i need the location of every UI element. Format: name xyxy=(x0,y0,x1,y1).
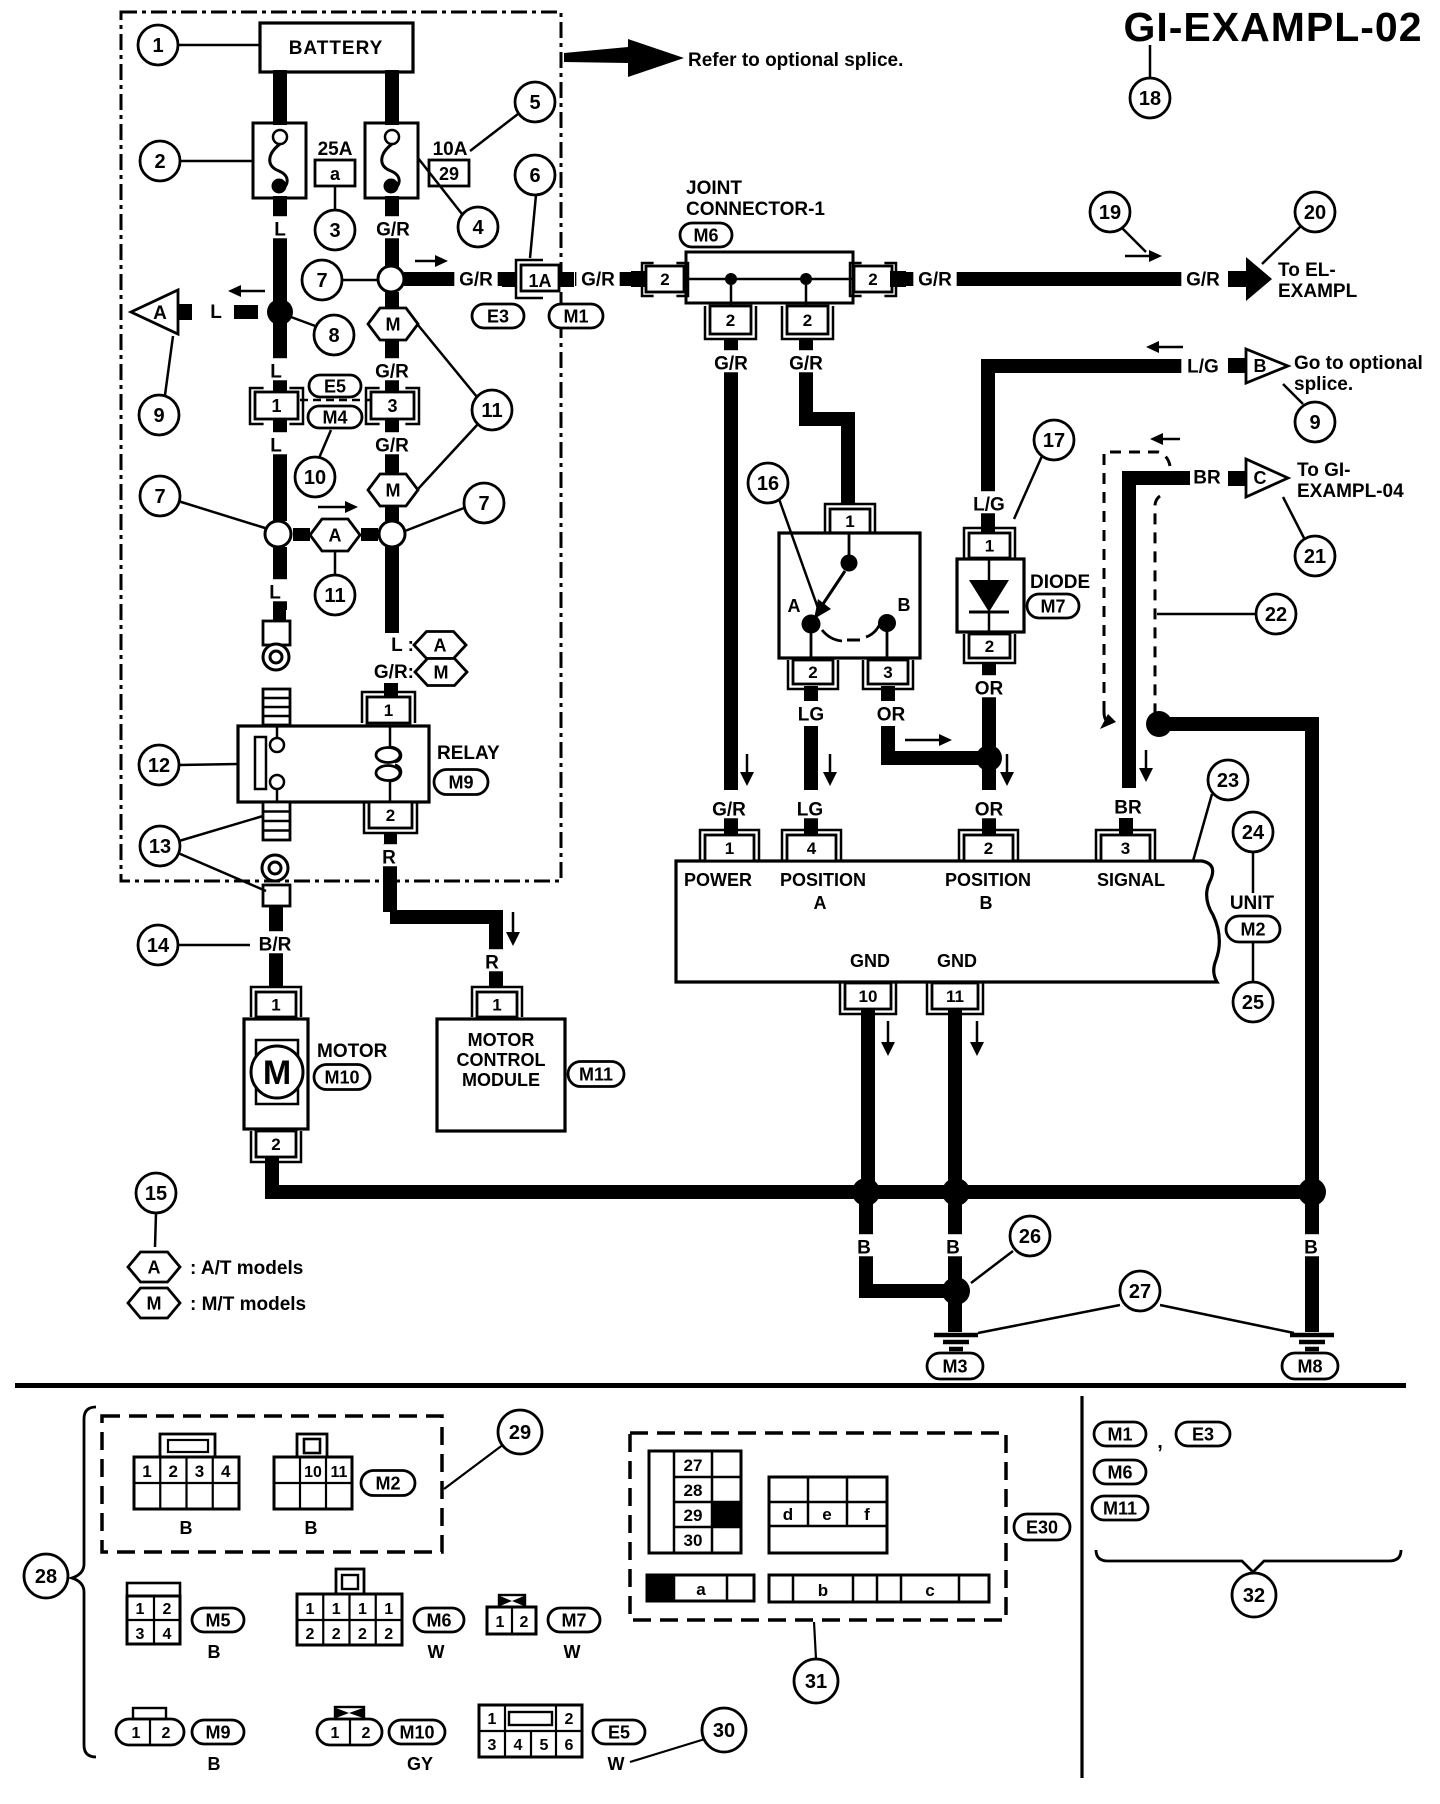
svg-text:2: 2 xyxy=(985,637,994,656)
svg-text:M1: M1 xyxy=(1107,1424,1132,1444)
svg-text:2: 2 xyxy=(660,270,669,289)
svg-text:2: 2 xyxy=(726,311,735,330)
svg-text:DIODE: DIODE xyxy=(1030,572,1090,593)
svg-text:B: B xyxy=(208,1754,221,1774)
svg-text:POSITION: POSITION xyxy=(945,870,1031,890)
svg-text:W: W xyxy=(428,1642,445,1662)
svg-text:M: M xyxy=(147,1293,162,1313)
svg-text:EXAMPL-04: EXAMPL-04 xyxy=(1297,481,1404,502)
svg-text:G/R:: G/R: xyxy=(374,662,414,683)
svg-text:10: 10 xyxy=(304,1464,322,1481)
svg-text:22: 22 xyxy=(1265,604,1287,626)
svg-text:2: 2 xyxy=(163,1601,172,1618)
svg-text:M7: M7 xyxy=(1040,596,1065,616)
svg-text:2: 2 xyxy=(358,1626,367,1643)
svg-text:27: 27 xyxy=(1129,1281,1151,1303)
svg-text:MOTOR: MOTOR xyxy=(317,1041,388,1062)
svg-text:3: 3 xyxy=(1121,839,1130,858)
svg-text:C: C xyxy=(1254,468,1267,488)
svg-text:10: 10 xyxy=(304,467,326,489)
svg-text:M3: M3 xyxy=(942,1356,967,1376)
svg-text:A: A xyxy=(814,893,827,913)
svg-text:1A: 1A xyxy=(528,271,551,291)
svg-text:,: , xyxy=(1157,1431,1163,1453)
svg-text:RELAY: RELAY xyxy=(437,743,500,764)
svg-text:2: 2 xyxy=(520,1614,529,1631)
svg-text:7: 7 xyxy=(154,486,165,508)
svg-text:6: 6 xyxy=(529,165,540,187)
svg-text:1: 1 xyxy=(132,1725,141,1742)
svg-text:M10: M10 xyxy=(399,1722,434,1742)
svg-text:G/R: G/R xyxy=(376,220,410,241)
svg-text:GND: GND xyxy=(937,951,977,971)
svg-text:4: 4 xyxy=(807,839,817,858)
svg-text:MODULE: MODULE xyxy=(462,1070,540,1090)
svg-text:1: 1 xyxy=(488,1711,497,1728)
svg-text:2: 2 xyxy=(565,1711,574,1728)
svg-text:M11: M11 xyxy=(579,1064,613,1084)
svg-text:E30: E30 xyxy=(1026,1517,1058,1537)
svg-text:EXAMPL: EXAMPL xyxy=(1278,281,1358,302)
svg-text:f: f xyxy=(864,1505,870,1524)
svg-text:4: 4 xyxy=(163,1626,172,1643)
svg-text:A: A xyxy=(434,635,447,655)
svg-text:3: 3 xyxy=(136,1626,145,1643)
svg-text:3: 3 xyxy=(387,396,397,416)
svg-text:R: R xyxy=(485,953,499,974)
svg-text:To EL-: To EL- xyxy=(1278,260,1336,281)
svg-text:1: 1 xyxy=(492,996,501,1015)
svg-text:B: B xyxy=(1254,356,1267,376)
svg-text:Go to optional: Go to optional xyxy=(1294,353,1423,374)
svg-text:30: 30 xyxy=(684,1531,703,1550)
svg-text:G/R: G/R xyxy=(581,270,615,291)
svg-text:A: A xyxy=(153,303,167,324)
svg-text:1: 1 xyxy=(845,512,854,531)
svg-text:3: 3 xyxy=(883,663,892,682)
svg-text:E5: E5 xyxy=(324,376,346,396)
svg-text:Refer to optional splice.: Refer to optional splice. xyxy=(688,50,903,71)
svg-text:d: d xyxy=(783,1505,793,1524)
svg-text:G/R: G/R xyxy=(712,800,746,821)
svg-text:M: M xyxy=(386,314,401,334)
svg-text:L: L xyxy=(210,302,222,323)
svg-text:1: 1 xyxy=(725,839,734,858)
svg-text:b: b xyxy=(818,1581,828,1600)
svg-text:M9: M9 xyxy=(205,1722,230,1742)
svg-text:To GI-: To GI- xyxy=(1297,460,1350,481)
svg-text:E5: E5 xyxy=(608,1722,630,1742)
svg-text:20: 20 xyxy=(1304,202,1326,224)
svg-text:4: 4 xyxy=(221,1462,231,1481)
svg-text:G/R: G/R xyxy=(789,354,823,375)
svg-text:M5: M5 xyxy=(205,1610,230,1630)
svg-text:1: 1 xyxy=(384,1601,393,1618)
svg-text:15: 15 xyxy=(145,1183,167,1205)
svg-text:B/R: B/R xyxy=(259,935,292,956)
svg-text:1: 1 xyxy=(384,701,393,720)
svg-text:W: W xyxy=(564,1642,581,1662)
svg-text:1: 1 xyxy=(136,1601,145,1618)
svg-text:2: 2 xyxy=(306,1626,315,1643)
svg-text:2: 2 xyxy=(162,1725,171,1742)
svg-text:W: W xyxy=(608,1754,625,1774)
svg-text:BR: BR xyxy=(1193,468,1221,489)
svg-text:E3: E3 xyxy=(487,306,509,326)
svg-text:POSITION: POSITION xyxy=(780,870,866,890)
svg-text:CONTROL: CONTROL xyxy=(457,1050,546,1070)
svg-text:3: 3 xyxy=(488,1737,497,1754)
svg-text:G/R: G/R xyxy=(1186,270,1220,291)
svg-text:2: 2 xyxy=(984,839,993,858)
svg-text:9: 9 xyxy=(1309,412,1320,434)
svg-text:splice.: splice. xyxy=(1294,374,1353,395)
svg-text:c: c xyxy=(925,1581,934,1600)
svg-text:L: L xyxy=(274,220,286,241)
svg-text:M: M xyxy=(386,480,401,500)
svg-text:29: 29 xyxy=(684,1506,703,1525)
svg-text:3: 3 xyxy=(195,1462,204,1481)
svg-text:11: 11 xyxy=(481,400,502,422)
svg-text:GY: GY xyxy=(407,1754,433,1774)
svg-text:11: 11 xyxy=(324,585,345,607)
svg-text:MOTOR: MOTOR xyxy=(468,1030,535,1050)
svg-text:M6: M6 xyxy=(426,1610,451,1630)
svg-text:6: 6 xyxy=(565,1737,574,1754)
svg-text:e: e xyxy=(822,1505,831,1524)
svg-text:1: 1 xyxy=(331,1725,340,1742)
svg-text:: M/T models: : M/T models xyxy=(190,1294,306,1315)
svg-text:M9: M9 xyxy=(448,772,473,792)
svg-text:M10: M10 xyxy=(324,1067,359,1087)
svg-text:POWER: POWER xyxy=(684,870,752,890)
svg-text:OR: OR xyxy=(975,679,1004,700)
svg-text:5: 5 xyxy=(529,92,540,114)
svg-text:2: 2 xyxy=(332,1626,341,1643)
svg-text:2: 2 xyxy=(169,1462,178,1481)
svg-text:1: 1 xyxy=(271,996,280,1015)
svg-text:8: 8 xyxy=(328,325,339,347)
svg-text:JOINT: JOINT xyxy=(686,178,742,199)
svg-text:A: A xyxy=(148,1257,161,1277)
svg-text:B: B xyxy=(898,595,911,615)
svg-text:M4: M4 xyxy=(322,407,347,427)
svg-text:29: 29 xyxy=(439,164,459,184)
svg-text:25A: 25A xyxy=(318,139,353,160)
svg-text:12: 12 xyxy=(148,755,170,777)
svg-text:M6: M6 xyxy=(1107,1462,1132,1482)
svg-text:1: 1 xyxy=(496,1614,505,1631)
svg-text:A: A xyxy=(788,596,801,616)
svg-text:7: 7 xyxy=(478,493,489,515)
svg-text:B: B xyxy=(305,1518,318,1538)
svg-text:1: 1 xyxy=(142,1462,151,1481)
svg-text:G/R: G/R xyxy=(714,354,748,375)
svg-text:a: a xyxy=(696,1580,706,1599)
svg-text:LG: LG xyxy=(797,800,823,821)
svg-text:B: B xyxy=(1304,1238,1318,1259)
svg-text:CONNECTOR-1: CONNECTOR-1 xyxy=(686,199,825,220)
svg-text:B: B xyxy=(208,1642,221,1662)
svg-text:2: 2 xyxy=(808,663,817,682)
svg-text:17: 17 xyxy=(1043,430,1065,452)
svg-text:B: B xyxy=(980,893,993,913)
svg-text:G/R: G/R xyxy=(375,436,409,457)
svg-text:M11: M11 xyxy=(1103,1498,1137,1518)
svg-text:G/R: G/R xyxy=(918,270,952,291)
svg-text:24: 24 xyxy=(1242,822,1265,844)
svg-text:M6: M6 xyxy=(693,225,718,245)
svg-text:M7: M7 xyxy=(561,1610,586,1630)
svg-text:L/G: L/G xyxy=(1187,357,1219,378)
svg-text:32: 32 xyxy=(1243,1585,1265,1607)
svg-text:4: 4 xyxy=(514,1737,523,1754)
svg-text:14: 14 xyxy=(147,935,170,957)
svg-text:2: 2 xyxy=(271,1135,280,1154)
svg-text:2: 2 xyxy=(803,311,812,330)
svg-text:1: 1 xyxy=(358,1601,367,1618)
svg-text:G/R: G/R xyxy=(459,270,493,291)
svg-text:M2: M2 xyxy=(1240,919,1265,939)
svg-text:L: L xyxy=(270,436,282,457)
svg-text:L: L xyxy=(270,362,282,383)
svg-text:a: a xyxy=(330,164,341,184)
svg-text:B: B xyxy=(180,1518,193,1538)
svg-text:OR: OR xyxy=(877,705,906,726)
svg-text:M8: M8 xyxy=(1297,1356,1322,1376)
svg-text:GND: GND xyxy=(850,951,890,971)
svg-text:2: 2 xyxy=(384,1626,393,1643)
svg-text:25: 25 xyxy=(1242,992,1264,1014)
svg-text:1: 1 xyxy=(271,396,281,416)
svg-text:18: 18 xyxy=(1139,88,1161,110)
svg-text:UNIT: UNIT xyxy=(1230,893,1275,914)
svg-text:M2: M2 xyxy=(375,1473,400,1493)
svg-text:M: M xyxy=(434,662,449,682)
svg-text:11: 11 xyxy=(946,987,964,1006)
svg-text:26: 26 xyxy=(1019,1226,1041,1248)
svg-text:19: 19 xyxy=(1099,202,1121,224)
svg-text:4: 4 xyxy=(472,217,484,239)
svg-text:LG: LG xyxy=(798,705,824,726)
svg-text:L :: L : xyxy=(391,635,414,656)
svg-text:B: B xyxy=(857,1238,871,1259)
svg-text:9: 9 xyxy=(153,405,164,427)
svg-text:27: 27 xyxy=(684,1456,703,1475)
svg-text:2: 2 xyxy=(868,270,877,289)
svg-text:10: 10 xyxy=(859,987,878,1006)
svg-text:M1: M1 xyxy=(563,306,588,326)
svg-text:28: 28 xyxy=(35,1566,57,1588)
svg-text:A: A xyxy=(329,525,342,545)
svg-text:BATTERY: BATTERY xyxy=(289,38,384,59)
svg-text:1: 1 xyxy=(985,537,994,556)
svg-text:E3: E3 xyxy=(1192,1424,1214,1444)
svg-text:: A/T models: : A/T models xyxy=(190,1258,303,1279)
svg-text:L: L xyxy=(269,583,281,604)
svg-text:M: M xyxy=(263,1054,291,1092)
svg-text:1: 1 xyxy=(152,35,163,57)
svg-text:B: B xyxy=(946,1238,960,1259)
svg-text:2: 2 xyxy=(362,1725,371,1742)
svg-text:11: 11 xyxy=(331,1464,348,1481)
svg-text:1: 1 xyxy=(332,1601,341,1618)
svg-text:GI-EXAMPL-02: GI-EXAMPL-02 xyxy=(1123,4,1422,50)
svg-text:21: 21 xyxy=(1304,546,1326,568)
svg-text:28: 28 xyxy=(684,1481,703,1500)
svg-text:29: 29 xyxy=(509,1422,531,1444)
svg-text:2: 2 xyxy=(386,806,395,825)
svg-text:1: 1 xyxy=(306,1601,315,1618)
svg-text:16: 16 xyxy=(757,473,779,495)
svg-text:7: 7 xyxy=(316,270,327,292)
svg-text:SIGNAL: SIGNAL xyxy=(1097,870,1165,890)
svg-text:G/R: G/R xyxy=(375,362,409,383)
svg-text:L/G: L/G xyxy=(973,495,1005,516)
svg-text:10A: 10A xyxy=(433,139,468,160)
svg-text:BR: BR xyxy=(1114,798,1142,819)
svg-text:OR: OR xyxy=(975,800,1004,821)
svg-text:23: 23 xyxy=(1217,770,1239,792)
svg-text:2: 2 xyxy=(154,151,165,173)
svg-text:3: 3 xyxy=(329,220,340,242)
svg-text:13: 13 xyxy=(149,836,171,858)
svg-text:31: 31 xyxy=(805,1671,827,1693)
svg-text:5: 5 xyxy=(540,1737,549,1754)
svg-text:30: 30 xyxy=(713,1720,735,1742)
svg-text:R: R xyxy=(382,848,396,869)
